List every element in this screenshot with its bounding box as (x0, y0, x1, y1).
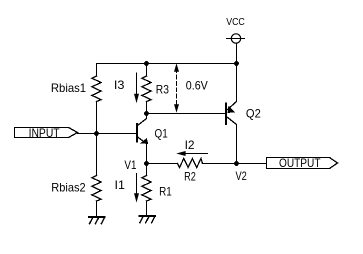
node INPUT junction (94, 131, 99, 136)
wire left column lower (96, 201, 98, 216)
svg-text:INPUT: INPUT (29, 126, 61, 140)
svg-text:OUTPUT: OUTPUT (279, 156, 321, 170)
node junction R3 top (144, 61, 149, 66)
port INPUT (15, 126, 78, 140)
ground under Rbias2 (88, 216, 106, 224)
current arrow I2 (176, 138, 207, 156)
wire top rail (97, 63, 237, 65)
node V1 (124, 158, 149, 172)
ground under R1 (138, 215, 156, 223)
transistor Q2 (226, 64, 261, 164)
svg-text:V1: V1 (124, 158, 136, 172)
wire V1 to R2 (147, 163, 178, 165)
wire left column upper (96, 64, 98, 77)
transistor Q1 (137, 114, 168, 164)
power VCC (226, 16, 245, 63)
annotation 0.6V dashed measure (174, 63, 208, 113)
svg-text:Rbias2: Rbias2 (51, 181, 86, 195)
node Q1 collector junction (144, 111, 149, 116)
svg-text:Q1: Q1 (155, 127, 168, 141)
svg-text:Q2: Q2 (246, 107, 261, 121)
svg-text:V2: V2 (236, 169, 248, 183)
resistor Rbias2 (51, 176, 101, 202)
wire INPUT to Q1 base (78, 133, 137, 135)
resistor R2 (178, 159, 203, 184)
resistor Rbias1 (51, 76, 101, 102)
node junction VCC rail (234, 61, 239, 66)
svg-text:R2: R2 (184, 169, 196, 183)
svg-text:I2: I2 (185, 138, 195, 152)
svg-text:0.6V: 0.6V (186, 78, 208, 92)
svg-text:Rbias1: Rbias1 (51, 81, 87, 95)
current arrow I3 (114, 73, 139, 103)
node V2 (234, 161, 247, 183)
wire base rail to Q2 (147, 113, 226, 115)
svg-text:I3: I3 (114, 78, 125, 92)
wire R2 to OUTPUT (203, 163, 267, 165)
resistor R3 (142, 76, 169, 102)
svg-text:R1: R1 (159, 184, 172, 198)
svg-text:I1: I1 (115, 178, 126, 192)
current arrow I1 (115, 174, 140, 203)
svg-text:VCC: VCC (226, 16, 245, 28)
resistor R1 (142, 164, 172, 216)
wire R3 bottom stub (146, 102, 148, 114)
wire left column middle (96, 102, 98, 176)
port OUTPUT (267, 156, 338, 170)
wire R3 top stub (146, 64, 148, 77)
svg-text:R3: R3 (156, 82, 169, 96)
